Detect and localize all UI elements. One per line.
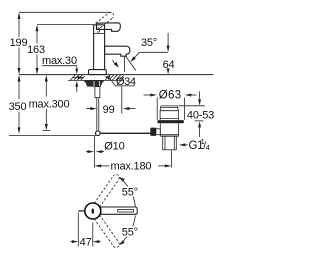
dashed lever arm top (55deg): [94, 174, 119, 207]
waste flange (dark band): [157, 120, 184, 123]
svg-text:99: 99: [103, 104, 115, 116]
35deg leader: [139, 51, 168, 53]
55deg bottom text: [121, 226, 139, 238]
svg-text:max.180: max.180: [111, 161, 152, 173]
40-53 ext lines: [179, 105, 205, 107]
lever pivot detail: [97, 28, 100, 32]
dim 47: [71, 213, 101, 249]
stream 35deg line: [126, 56, 136, 70]
svg-text:Ø10: Ø10: [104, 141, 124, 153]
mounting nut (below counter): [84, 81, 103, 87]
dim Ø63: [144, 89, 197, 101]
dim G1 1/4: [179, 137, 210, 152]
center slot: [92, 208, 95, 214]
countertop bottom line: [68, 79, 124, 81]
35deg arc arrow: [113, 60, 118, 66]
counter hatching right: [105, 75, 124, 81]
solid lever (rest position): [97, 23, 121, 32]
dim 199: [10, 12, 28, 74]
rod elbow joint: [96, 131, 101, 136]
svg-text:35°: 35°: [141, 37, 157, 49]
dashed lever arm bottom (55deg): [94, 215, 119, 248]
svg-text:4: 4: [206, 143, 210, 152]
body circle top view: [85, 203, 101, 219]
ref line top of raised lever (199): [19, 11, 112, 13]
svg-text:64: 64: [163, 59, 175, 71]
dim Ø34 (hole): [72, 76, 136, 88]
dim 40-53: [187, 92, 214, 138]
svg-text:55°: 55°: [122, 226, 138, 238]
waste lower body: [160, 123, 178, 136]
waste side nut (dark): [150, 128, 156, 136]
svg-text:55°: 55°: [122, 186, 138, 198]
dim 163: [27, 25, 45, 75]
Ø63 ext lines: [156, 98, 158, 120]
ext line (spout reach): [121, 86, 123, 113]
waste side outlet: [153, 129, 160, 135]
svg-text:Ø63: Ø63: [159, 89, 182, 101]
dim 350: [9, 75, 27, 134]
ref line 350 (supply level): [9, 135, 96, 137]
lever top view: [101, 207, 138, 214]
svg-text:max.30: max.30: [42, 55, 77, 67]
left stub: [78, 210, 85, 212]
stream vertical line: [124, 57, 126, 72]
countertop top line: [19, 74, 214, 76]
svg-text:47: 47: [80, 236, 92, 248]
ref line top of body (163): [37, 24, 94, 26]
svg-text:max.300: max.300: [29, 99, 70, 111]
pop-up rod (vertical): [96, 98, 98, 132]
svg-text:199: 199: [10, 37, 28, 49]
Ø10 dim (rod): [86, 136, 125, 168]
dashed lever (raised position): [96, 12, 114, 27]
pop-up waste: knob: [160, 106, 178, 111]
swing arc with arrows: [120, 178, 135, 244]
svg-text:350: 350: [9, 101, 27, 113]
dim max.180: [95, 151, 172, 173]
svg-text:163: 163: [27, 44, 45, 56]
spout: [105, 46, 130, 56]
svg-text:40-53: 40-53: [187, 109, 214, 121]
dim max.30 (counter thickness): [42, 55, 78, 92]
faucet body column: [94, 25, 105, 70]
threaded shank: [95, 87, 100, 98]
counter hatching left: [70, 75, 85, 81]
dim 64: [163, 33, 175, 74]
dim max.300: [29, 75, 70, 130]
svg-text:Ø34: Ø34: [116, 76, 136, 88]
waste upper body: [160, 111, 178, 120]
horizontal rod to waste: [100, 132, 152, 134]
waste tailpipe: [163, 136, 177, 150]
body joint line: [94, 33, 105, 35]
55deg top text: [121, 186, 139, 198]
dim 99: [86, 104, 136, 116]
faucet base: [89, 70, 107, 75]
